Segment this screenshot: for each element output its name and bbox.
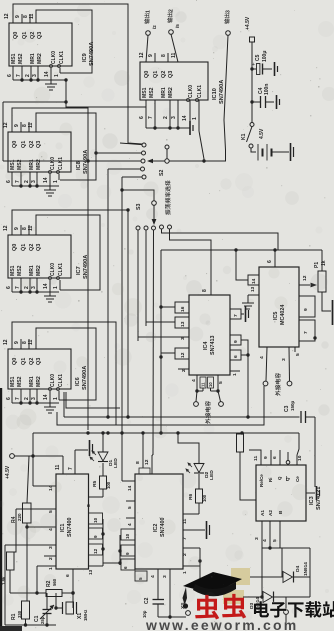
switch S2 wiper with arrow (147, 159, 169, 163)
svg-text:MR2: MR2 (37, 53, 43, 64)
svg-text:6: 6 (233, 355, 239, 358)
wire C3 to IC3 ground rail (314, 417, 316, 487)
svg-text:7: 7 (182, 537, 188, 540)
IC10 top pin numbers (139, 52, 177, 58)
IC3 pin4 bottom (262, 521, 270, 548)
svg-text:Q0: Q0 (13, 32, 19, 39)
svg-text:6: 6 (139, 116, 145, 119)
IC4 pin3 left (138, 337, 189, 341)
wire IC6 Q0 top bus down long (12, 322, 116, 425)
ground P1 (332, 300, 334, 325)
IC8 pin stub Q1 (20, 122, 22, 132)
IC3 SN74121 monostable (256, 465, 306, 521)
IC8 SN7490A decade counter (8, 132, 71, 174)
IC7 bottom pin stubs and numbers (6, 278, 59, 292)
svg-text:6: 6 (272, 456, 278, 459)
IC6 pin stub Q2 (28, 339, 30, 349)
wire IC4 pin9 pin6 join down to bus (241, 340, 250, 417)
wire S2 contact5 to S3 wiper and down (120, 177, 154, 481)
svg-text:IC9: IC9 (82, 53, 88, 62)
IC5 pin14 left (248, 275, 259, 285)
IC6 designator (75, 366, 88, 390)
svg-text:Q2: Q2 (29, 141, 35, 148)
IC8 top pin numbers (3, 122, 34, 128)
IC2 pin1 right (182, 566, 200, 574)
node output2 terminal (167, 9, 180, 34)
svg-text:5: 5 (295, 353, 301, 356)
switch S2 contact 1 (120, 143, 146, 147)
IC4 SN7413 schmitt trigger (189, 295, 230, 375)
wire output1 to IC10 pin12 (146, 35, 148, 62)
IC1 pin11 top (55, 456, 63, 474)
svg-text:IC2: IC2 (153, 524, 159, 532)
svg-text:S2: S2 (159, 170, 165, 176)
IC7 pin stub Q1 (20, 225, 22, 235)
svg-text:12: 12 (302, 275, 308, 281)
svg-text:IC1: IC1 (60, 524, 66, 532)
scan border left edge (0, 388, 2, 631)
wire IC7 Q3 to pin1 loop (36, 215, 100, 290)
ground battery (290, 143, 292, 161)
IC2 pin10 left (121, 529, 135, 540)
wire IC5 pin9 to pin7 (313, 336, 316, 339)
svg-text:100: 100 (106, 481, 111, 489)
svg-text:IC10: IC10 (212, 88, 218, 100)
svg-text:Q1: Q1 (21, 244, 27, 251)
svg-text:SN7490A: SN7490A (219, 80, 225, 104)
IC9 top pin numbers 12 9 8 11 (4, 13, 35, 19)
svg-text:1N914: 1N914 (303, 562, 308, 576)
label external capacitor IC4 (205, 418, 210, 424)
ground C5 (274, 62, 276, 76)
svg-text:9: 9 (14, 124, 20, 127)
wire IC8 Q3 to pin1 loop (36, 113, 96, 180)
wire C2 to XS terminal (158, 615, 186, 618)
IC5 MC4024 VCO (259, 267, 299, 347)
switch S2 contact 2 (94, 151, 145, 155)
svg-text:9: 9 (93, 535, 98, 538)
svg-text:2: 2 (24, 397, 30, 400)
svg-text:1: 1 (48, 567, 54, 570)
svg-text:9: 9 (148, 54, 154, 57)
svg-text:6: 6 (6, 397, 12, 400)
svg-text:12: 12 (3, 122, 9, 128)
IC2 pin9 left (121, 545, 135, 556)
IC9 SN7490A decade counter (9, 23, 72, 68)
svg-text:9: 9 (303, 308, 309, 311)
IC6 SN7490A decade counter (8, 349, 71, 391)
svg-text:9: 9 (14, 227, 20, 230)
IC2 pin6 left (121, 559, 135, 570)
svg-text:C5: C5 (255, 54, 261, 61)
IC9 CLK1 pin1 wire (59, 68, 61, 73)
IC7 designator (76, 255, 89, 279)
wire IC1 right pins common (101, 519, 104, 566)
svg-text:6: 6 (6, 180, 12, 183)
svg-text:10: 10 (125, 533, 130, 539)
svg-text:/5: /5 (175, 24, 180, 28)
wire IC3 left to timing resistor (240, 452, 256, 500)
IC1 pin6 bottom (65, 569, 73, 577)
svg-text:MS1: MS1 (10, 376, 16, 387)
wire VCC branch down to IC4 pin14 and bus (159, 250, 162, 433)
wire IC6 CLK nested feed B (63, 392, 65, 417)
IC3 pin labels top (259, 474, 300, 487)
svg-text:14: 14 (43, 394, 49, 400)
node XS output jack right (284, 597, 289, 628)
resistor R4 220 (11, 456, 31, 601)
wire bus y425 to external cap (57, 386, 264, 425)
svg-text:1: 1 (53, 397, 59, 400)
wire IC2 left pins common (118, 535, 121, 565)
svg-text:4: 4 (191, 379, 197, 382)
svg-text:330: 330 (17, 610, 22, 618)
resistor R5 100 (92, 476, 111, 489)
resistor R6 100 (188, 489, 207, 503)
IC3 pin5 bottom (272, 521, 280, 548)
IC7 SN7490A decade counter (8, 235, 71, 280)
svg-text:5: 5 (48, 510, 54, 513)
IC4 pin1 right (230, 371, 240, 376)
IC1 pin2 left (44, 556, 56, 560)
label external capacitor IC5 (275, 390, 280, 396)
capacitor C3 150p on bus (284, 400, 315, 423)
switch S3 contact 4 (160, 225, 279, 250)
wire IC3 trigger down to diodes (262, 548, 282, 597)
IC7 reset bus (12, 290, 59, 293)
wire bus to IC3 pin10 (297, 433, 299, 455)
wire IC9 Q0 top bus to S2 contact 1 (13, 4, 142, 144)
svg-text:9: 9 (14, 341, 20, 344)
svg-text:MS2: MS2 (17, 265, 23, 276)
watermark chongchong red characters (195, 594, 246, 620)
IC4 pin12 left (161, 348, 189, 359)
svg-text:7: 7 (303, 331, 309, 334)
IC1 pin9 right (89, 528, 103, 539)
IC2 pin14 left (122, 481, 135, 491)
switch K1 power switch (241, 123, 254, 149)
IC1 pin5 left (10, 509, 56, 552)
svg-text:C2: C2 (144, 597, 150, 604)
svg-text:Q2: Q2 (29, 358, 35, 365)
scan border bottom left (0, 626, 22, 631)
watermark site name text (254, 601, 269, 617)
svg-text:14: 14 (251, 278, 256, 284)
svg-text:11: 11 (182, 519, 188, 524)
resistor R3 1.8k (0, 552, 14, 593)
switch S2 contact 5 (122, 175, 146, 179)
svg-text:14: 14 (43, 177, 49, 183)
svg-text:11: 11 (29, 13, 35, 19)
svg-text:10: 10 (93, 517, 98, 523)
svg-text:MR2: MR2 (36, 376, 42, 387)
IC1 pin10 right (89, 513, 103, 524)
wire IC3 output to right rail (280, 547, 310, 549)
svg-text:MS2: MS2 (18, 53, 24, 64)
diode D4 1N914 (250, 562, 310, 583)
IC2 pin8 top (135, 433, 150, 474)
svg-text:P1: P1 (314, 262, 320, 268)
svg-text:MR1: MR1 (29, 265, 35, 276)
IC10 reset bus (146, 126, 188, 129)
svg-text:MS1: MS1 (11, 53, 17, 64)
svg-text:11: 11 (55, 464, 61, 470)
svg-text:5: 5 (218, 381, 224, 384)
svg-text:K1: K1 (241, 133, 247, 140)
wire branch to IC5 pin14 (236, 250, 248, 280)
IC2 pin4 left (126, 518, 135, 526)
svg-text:1: 1 (232, 373, 238, 376)
svg-text:3: 3 (31, 180, 37, 183)
IC8 CLK1 pin1 wire (58, 174, 60, 180)
svg-text:12: 12 (93, 548, 98, 554)
IC3 Qbar pin with circle (286, 452, 290, 464)
IC6 CLK1 pin1 wire (58, 391, 60, 400)
svg-text:MR2: MR2 (168, 87, 174, 98)
capacitor C2 10p (142, 597, 164, 618)
switch S3 contact 2 (144, 226, 148, 326)
svg-text:150p: 150p (290, 400, 295, 411)
ground IC9 (45, 68, 57, 90)
IC5 pin13 left with ground (242, 286, 259, 309)
svg-text:100μ: 100μ (262, 51, 268, 62)
IC1 SN7400 quad NAND (56, 474, 89, 569)
junction IC4 ext cap right (211, 389, 221, 401)
IC5 pin7 right (299, 320, 315, 341)
capacitor C4 100n (252, 84, 274, 108)
svg-text:1: 1 (53, 286, 59, 289)
svg-text:MR1: MR1 (161, 87, 167, 98)
IC6 reset bus (12, 401, 59, 404)
IC3 right side ground (306, 486, 320, 500)
crystal X1 1MHz (54, 570, 88, 621)
svg-text:LED: LED (209, 470, 215, 480)
IC4 bottom pins 4 11 10 5 (191, 375, 224, 391)
IC6 top pin numbers (3, 339, 34, 345)
svg-text:4: 4 (127, 523, 132, 526)
svg-text:1: 1 (53, 180, 59, 183)
svg-text:11: 11 (201, 382, 206, 387)
wire +4.5V rail down to K1 (250, 42, 253, 122)
svg-text:Q3: Q3 (168, 71, 174, 78)
svg-text:CLK0: CLK0 (50, 157, 56, 170)
svg-text:6: 6 (267, 260, 273, 263)
IC5 pin9 right (299, 296, 315, 317)
svg-text:9: 9 (233, 340, 239, 343)
svg-text:CLK0: CLK0 (188, 85, 194, 98)
IC9 pin stub Q1 (21, 14, 23, 23)
switch S3 contact 5 (168, 225, 212, 295)
svg-text:11: 11 (28, 339, 34, 345)
svg-text:3: 3 (254, 537, 260, 540)
IC10 pin stub Q2 (167, 53, 169, 62)
wire IC6 Q3 to pin1 loop (36, 328, 96, 400)
svg-text:LED: LED (113, 458, 119, 468)
IC1 pin3 left (5, 545, 56, 625)
svg-text:CLK0: CLK0 (51, 51, 57, 64)
IC7 pin stub Q2 (28, 225, 30, 235)
IC9 pin stub Q2 (29, 14, 31, 23)
svg-text:8: 8 (161, 54, 167, 57)
svg-text:CLK1: CLK1 (58, 374, 64, 387)
IC9 reset bus (13, 78, 68, 81)
svg-text:4: 4 (259, 356, 265, 359)
wire S2 contact4 down to y417 bus (107, 169, 109, 417)
svg-text:Q3: Q3 (36, 358, 42, 365)
IC5 pin12 right to P1 wiper arrow (299, 275, 317, 287)
svg-text:A1: A1 (260, 510, 265, 516)
IC7 CLK1 pin1 wire (59, 280, 61, 290)
svg-text:Q: Q (277, 476, 282, 480)
resistor R1 330 (11, 601, 30, 625)
svg-text:+: + (252, 62, 255, 68)
svg-text:8: 8 (86, 504, 92, 507)
svg-text:3: 3 (171, 116, 177, 119)
svg-text:100n: 100n (264, 84, 270, 95)
IC8 bottom pin stubs and numbers (6, 172, 59, 186)
wire left feeder y102 (3, 102, 66, 161)
svg-text:2: 2 (24, 180, 30, 183)
svg-text:Q3: Q3 (36, 141, 42, 148)
IC4 pin6 right (230, 350, 241, 360)
svg-text:13: 13 (88, 569, 93, 575)
svg-text:3: 3 (32, 74, 38, 77)
wire IC9 Q3 to IC9 CLK1 loop (36, 10, 92, 73)
svg-text:4.5V: 4.5V (259, 128, 265, 139)
switch S2 contact 3 (3, 159, 145, 163)
svg-text:3: 3 (281, 358, 287, 361)
junction IC4 ext cap left (195, 389, 203, 401)
IC2 pin5 left (126, 501, 135, 509)
node XS output jack left (180, 602, 190, 616)
node +4.5V supply terminal (245, 16, 255, 42)
IC5 pin4 to external cap terminal (259, 347, 267, 381)
svg-text:8: 8 (202, 289, 208, 292)
IC10 designator (212, 80, 225, 104)
IC2 bottom pin5 notch (135, 571, 147, 581)
IC10 pin stub Q1 (154, 53, 156, 62)
svg-text:Q0: Q0 (12, 244, 18, 251)
svg-text:MS2: MS2 (149, 87, 155, 98)
svg-text:R5: R5 (92, 480, 98, 487)
svg-text:1MHz: 1MHz (83, 610, 88, 621)
svg-text:1k: 1k (321, 260, 327, 266)
wire link IC1 to IC2 lower (103, 562, 120, 564)
svg-text:Q0: Q0 (12, 141, 18, 148)
svg-text:Ce: Ce (295, 476, 300, 482)
svg-text:MR1: MR1 (30, 53, 36, 64)
svg-text:IC3: IC3 (309, 496, 315, 505)
svg-text:SN7490A: SN7490A (89, 42, 95, 66)
wire bus y417 (64, 415, 300, 418)
svg-text:11: 11 (171, 52, 177, 58)
IC2 SN7400 quad NAND (135, 474, 183, 569)
IC4 pin8 top stub (202, 287, 211, 295)
svg-text:S3: S3 (136, 204, 142, 210)
svg-text:100: 100 (202, 494, 207, 502)
svg-text:3: 3 (225, 10, 231, 13)
potentiometer P1 1k (314, 250, 331, 311)
switch S3 wiper (152, 201, 157, 225)
svg-text:CLK1: CLK1 (59, 51, 65, 64)
switch S2 contact 4 (108, 167, 145, 171)
IC7 top pin numbers (3, 225, 34, 231)
IC4 pin2 left (178, 369, 189, 372)
highlight patch near D3 (223, 590, 244, 604)
ground C4 (276, 95, 278, 109)
IC1 pin13 right (88, 566, 103, 575)
svg-text:SN7400: SN7400 (67, 518, 73, 537)
wire diode cathodes common (309, 548, 311, 597)
svg-text:12: 12 (3, 339, 9, 345)
svg-text:Q3: Q3 (37, 32, 43, 39)
svg-text:Ri: Ri (268, 478, 273, 483)
svg-text:Q: Q (285, 477, 290, 481)
svg-text:SN7413: SN7413 (210, 336, 216, 355)
IC8 designator (76, 150, 89, 174)
svg-text:13: 13 (180, 321, 186, 327)
svg-text:6: 6 (6, 286, 12, 289)
ground IC6 (44, 391, 56, 413)
label oscillator frequency select (165, 209, 170, 215)
svg-text:8: 8 (135, 461, 141, 464)
svg-text:IC4: IC4 (203, 342, 209, 350)
highlight patch near D4 (231, 568, 250, 585)
svg-text:3: 3 (48, 546, 54, 549)
IC3 pin labels bottom A1 A2 B (260, 510, 283, 516)
IC9 designator (82, 42, 95, 66)
IC4 pin13 left (146, 317, 189, 328)
IC4 pin9 right (230, 335, 241, 345)
node +4.5V left terminal (5, 454, 14, 479)
svg-text:+4.5V: +4.5V (245, 16, 251, 30)
svg-text:MS1: MS1 (142, 87, 148, 98)
watermark graduation cap logo (183, 572, 243, 609)
svg-text:1: 1 (145, 10, 151, 13)
IC5 pin6 top stub (267, 250, 275, 267)
wire IC9 bus to IC10 area (64, 80, 146, 107)
wire +4.5V up to main supply bus (32, 433, 34, 456)
svg-text:7: 7 (15, 286, 21, 289)
IC8 pin stub Q2 (28, 122, 30, 132)
wire output3 down to S2 wiper (169, 35, 228, 161)
IC1 pin8 right to R5 (86, 489, 103, 507)
IC5 pin5 bottom stub (295, 347, 301, 356)
svg-text:2: 2 (181, 369, 187, 372)
IC3 pin3 bottom (254, 521, 262, 545)
svg-text:12: 12 (3, 225, 9, 231)
svg-text:12: 12 (144, 459, 150, 465)
node IC5 external capacitor terminal A (263, 381, 268, 386)
IC2 pin4 bottom to C2 (150, 569, 158, 599)
svg-text:16: 16 (180, 306, 186, 312)
wire IC7 Q0 top bus down long (12, 208, 130, 417)
svg-text:7: 7 (15, 180, 21, 183)
svg-text:D4: D4 (295, 565, 301, 572)
wire bottom left node (5, 623, 56, 626)
svg-text:SN7490A: SN7490A (82, 366, 88, 390)
svg-text:13: 13 (250, 286, 255, 292)
svg-text:11: 11 (253, 456, 259, 461)
wire IC10 pin1 to S2 wiper line (199, 131, 206, 163)
wire main supply bus y433 (33, 431, 299, 434)
svg-text:6: 6 (65, 574, 71, 577)
svg-text:Q0: Q0 (12, 358, 18, 365)
switch S2 upper pivot (165, 145, 169, 159)
wire S3 row to IC5 pin6 and P1 line (161, 248, 322, 251)
svg-text:14: 14 (43, 283, 49, 289)
svg-text:10: 10 (297, 455, 303, 461)
